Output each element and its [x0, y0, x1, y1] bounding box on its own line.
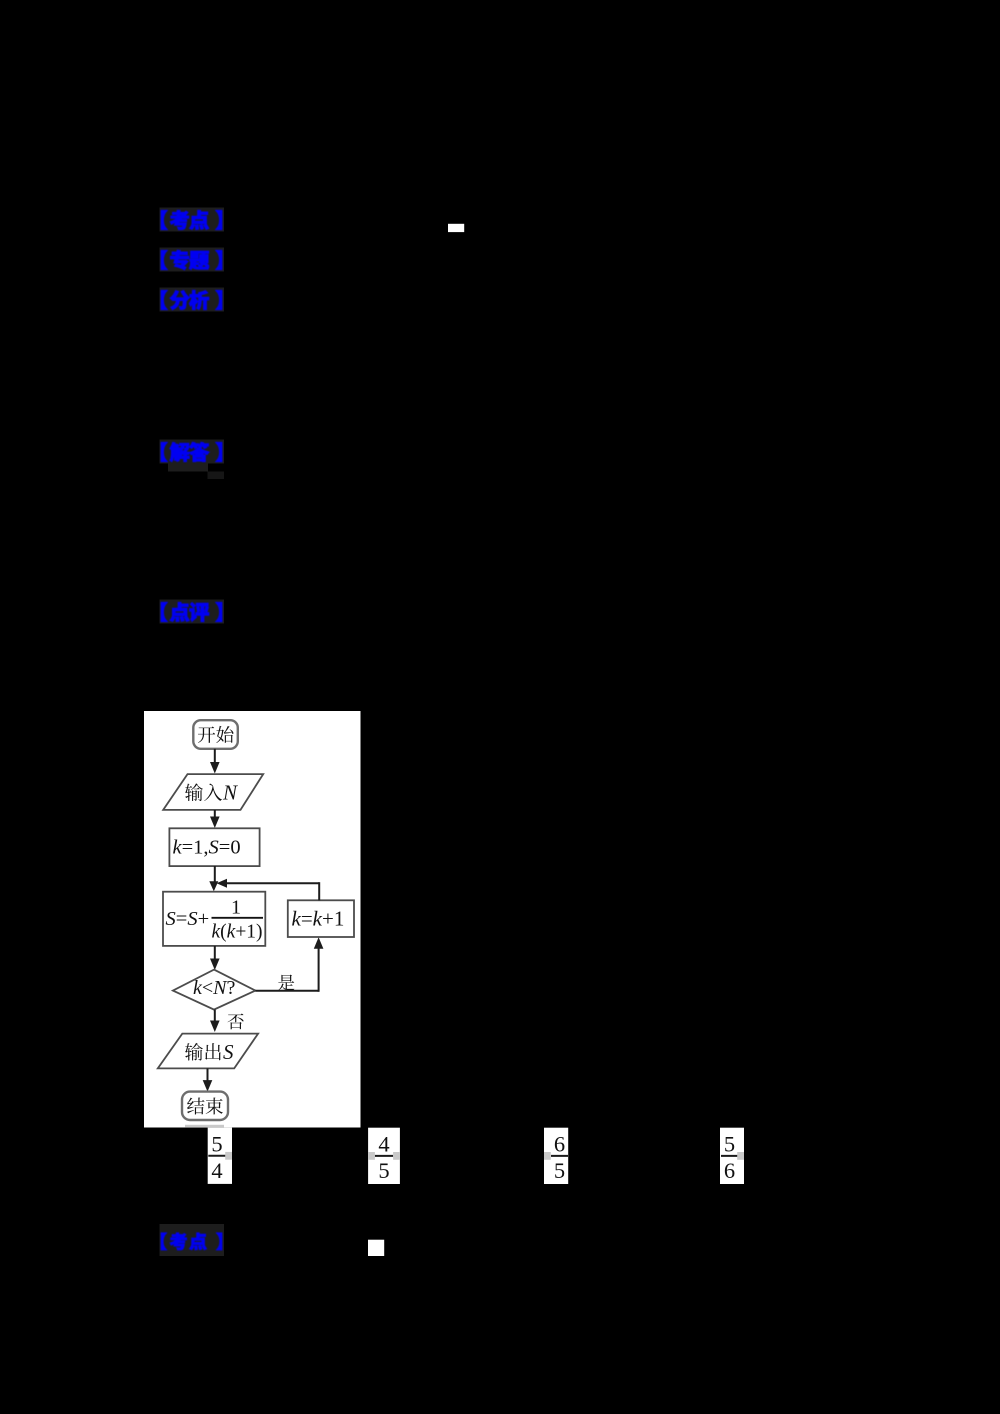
arrow S box to decision [210, 946, 220, 970]
line init down to junction [209, 866, 218, 891]
yes branch 是 line right and up [255, 937, 323, 992]
line increment box up to feedback line [318, 882, 320, 900]
svg-text:k=k+1: k=k+1 [292, 907, 345, 931]
svg-text:k(k+1): k(k+1) [212, 922, 263, 943]
section label fenxi blue text [161, 290, 222, 310]
svg-text:5: 5 [554, 1158, 565, 1183]
option fraction 4/5 [368, 1128, 400, 1184]
svg-text:5: 5 [378, 1158, 389, 1183]
output parallelogram 输出S [158, 1034, 258, 1069]
svg-text:S=S+: S=S+ [166, 908, 210, 930]
svg-text:S: S [223, 1040, 234, 1064]
no label 否 [228, 1014, 244, 1030]
increment box k=k+1 [288, 900, 354, 937]
option fraction 5/4 [208, 1128, 232, 1184]
yes label 是 [278, 975, 294, 991]
white answer blank top [448, 224, 464, 232]
arrow input to init [210, 810, 220, 828]
no branch 否 down from diamond [210, 1010, 220, 1032]
section label kaodian-1 blue text [161, 210, 222, 229]
section label zhuanti highlight box [160, 248, 225, 272]
svg-text:6: 6 [554, 1132, 565, 1157]
svg-text:4: 4 [378, 1132, 389, 1157]
svg-text:4: 4 [211, 1158, 222, 1183]
flowchart start terminator 开始 [193, 720, 238, 749]
arrow output to end [203, 1068, 213, 1091]
section label jieda highlight box [160, 440, 225, 464]
section label kaodian-2 blue text [161, 1233, 222, 1250]
input parallelogram 输入N [163, 774, 263, 810]
section label kaodian-2 highlight box [160, 1224, 225, 1256]
svg-text:k<N?: k<N? [193, 977, 236, 999]
init box k=1,S=0 [169, 828, 259, 866]
process box S=S+1/k(k+1) [163, 892, 265, 946]
section label zhuanti blue text [161, 250, 222, 270]
white answer blank bottom [368, 1240, 384, 1256]
end terminator 结束 [182, 1092, 228, 1120]
svg-text:6: 6 [724, 1158, 735, 1183]
highlight remnant under jieda label [168, 464, 224, 480]
section label dianping highlight box [160, 600, 225, 624]
svg-text:1: 1 [231, 897, 241, 919]
gray strip under end box [185, 1125, 224, 1128]
option fraction 6/5 [544, 1128, 568, 1184]
section label kaodian-1 highlight box [160, 208, 225, 232]
section label dianping blue text [161, 602, 222, 621]
feedback horizontal line into junction [217, 879, 320, 888]
option fraction 5/6 [720, 1128, 744, 1184]
section label jieda blue text [161, 442, 222, 462]
svg-text:k=1,S=0: k=1,S=0 [173, 837, 241, 859]
decision diamond k<N? [173, 970, 256, 1010]
svg-text:5: 5 [211, 1132, 222, 1157]
arrow start to input [210, 749, 220, 774]
svg-text:N: N [222, 781, 238, 805]
flowchart white background [144, 711, 361, 1128]
section label fenxi highlight box [160, 288, 225, 312]
svg-text:5: 5 [724, 1132, 735, 1157]
